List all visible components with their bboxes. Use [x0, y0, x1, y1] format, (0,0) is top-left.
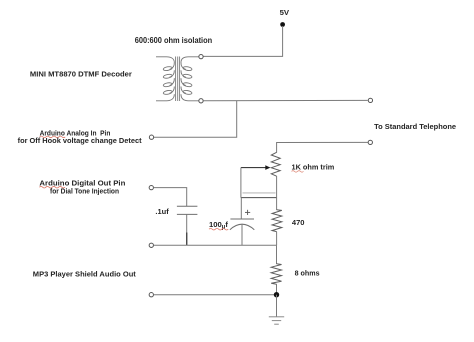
capacitor C2 100uF flat plate: [230, 218, 254, 220]
resistor R2 470 zigzag: [272, 210, 282, 232]
wire faint upper junction line: [243, 192, 276, 194]
svg-text:f: f: [225, 220, 228, 229]
capacitor C2 100uF curved plate: [230, 224, 254, 230]
wire 8 ohm bottom lead: [276, 284, 278, 295]
wire 8 ohm top lead: [276, 245, 278, 264]
svg-text:8 ohms: 8 ohms: [295, 268, 320, 277]
pin Arduino Digital Out terminal: [149, 185, 153, 189]
wire transformer bottom to telephone: [203, 99, 367, 101]
svg-text:100: 100: [209, 220, 222, 229]
spellcheck squiggle under 1K: [292, 171, 304, 173]
wire cap C1 lower lead dark segment: [186, 233, 188, 246]
pin Arduino Analog In terminal: [149, 135, 153, 139]
pin To Standard Telephone bottom terminal: [368, 140, 372, 144]
ground: [269, 317, 284, 324]
pin bottom rail left terminal: [149, 243, 153, 247]
pin MP3 audio out terminal: [149, 293, 153, 297]
wire digital out to cap C1: [154, 188, 187, 207]
svg-text:for Off Hook voltage change De: for Off Hook voltage change Detect: [18, 136, 142, 145]
wire cap C1 to bottom rail: [186, 214, 188, 245]
label 100uf: [209, 220, 228, 231]
spellcheck squiggle under Arduino: [40, 136, 66, 138]
wire pot bottom to resistor 470: [276, 176, 278, 210]
wire potentiometer top to telephone terminal: [277, 142, 368, 152]
pin transformer secondary top terminal: [199, 54, 203, 58]
svg-text:MINI MT8870 DTMF Decoder: MINI MT8870 DTMF Decoder: [30, 70, 132, 79]
wire MP3 out to ground node: [154, 294, 277, 296]
wire bottom rail: [154, 244, 277, 246]
wire 100uF top lead: [240, 198, 242, 219]
svg-text:1K ohm trim: 1K ohm trim: [292, 162, 335, 171]
capacitor C1 .1uf plates: [177, 206, 198, 214]
svg-text:5V: 5V: [280, 8, 290, 17]
transformer T1 primary coil: [156, 57, 174, 101]
pin To Standard Telephone top terminal: [368, 98, 372, 102]
power 5V dot: [280, 22, 285, 27]
svg-text:MP3 Player Shield Audio Out: MP3 Player Shield Audio Out: [33, 269, 137, 278]
capacitor C2 100uF plus sign: [245, 210, 250, 215]
svg-text:.1uf: .1uf: [155, 207, 169, 216]
wire junction branch to analog in: [154, 101, 237, 137]
spellcheck squiggle under 100uf: [209, 228, 228, 230]
transformer T1 secondary coil: [181, 57, 199, 101]
svg-text:470: 470: [292, 218, 305, 227]
junction node dot: [274, 292, 279, 297]
pin transformer secondary bottom terminal: [199, 99, 203, 103]
wire 100uF bottom lead: [241, 225, 243, 246]
resistor R3 8 ohms zigzag: [271, 264, 281, 285]
spellcheck squiggle under Arduino digital: [39, 186, 65, 188]
transformer T1 core: [176, 57, 180, 102]
svg-text:To Standard Telephone: To Standard Telephone: [374, 122, 456, 131]
svg-text:for Dial Tone Injection: for Dial Tone Injection: [50, 187, 119, 196]
wire 5V to transformer top: [203, 26, 282, 56]
potentiometer R1 1K zigzag: [271, 152, 280, 176]
svg-text:600:600 ohm isolation: 600:600 ohm isolation: [135, 36, 213, 45]
wire wiper down to junction: [240, 168, 242, 198]
wire to ground: [276, 295, 278, 317]
wire 470 to bottom rail: [276, 232, 278, 246]
wire junction wiper to pot bottom: [241, 197, 277, 199]
potentiometer wiper arrow: [241, 165, 271, 170]
